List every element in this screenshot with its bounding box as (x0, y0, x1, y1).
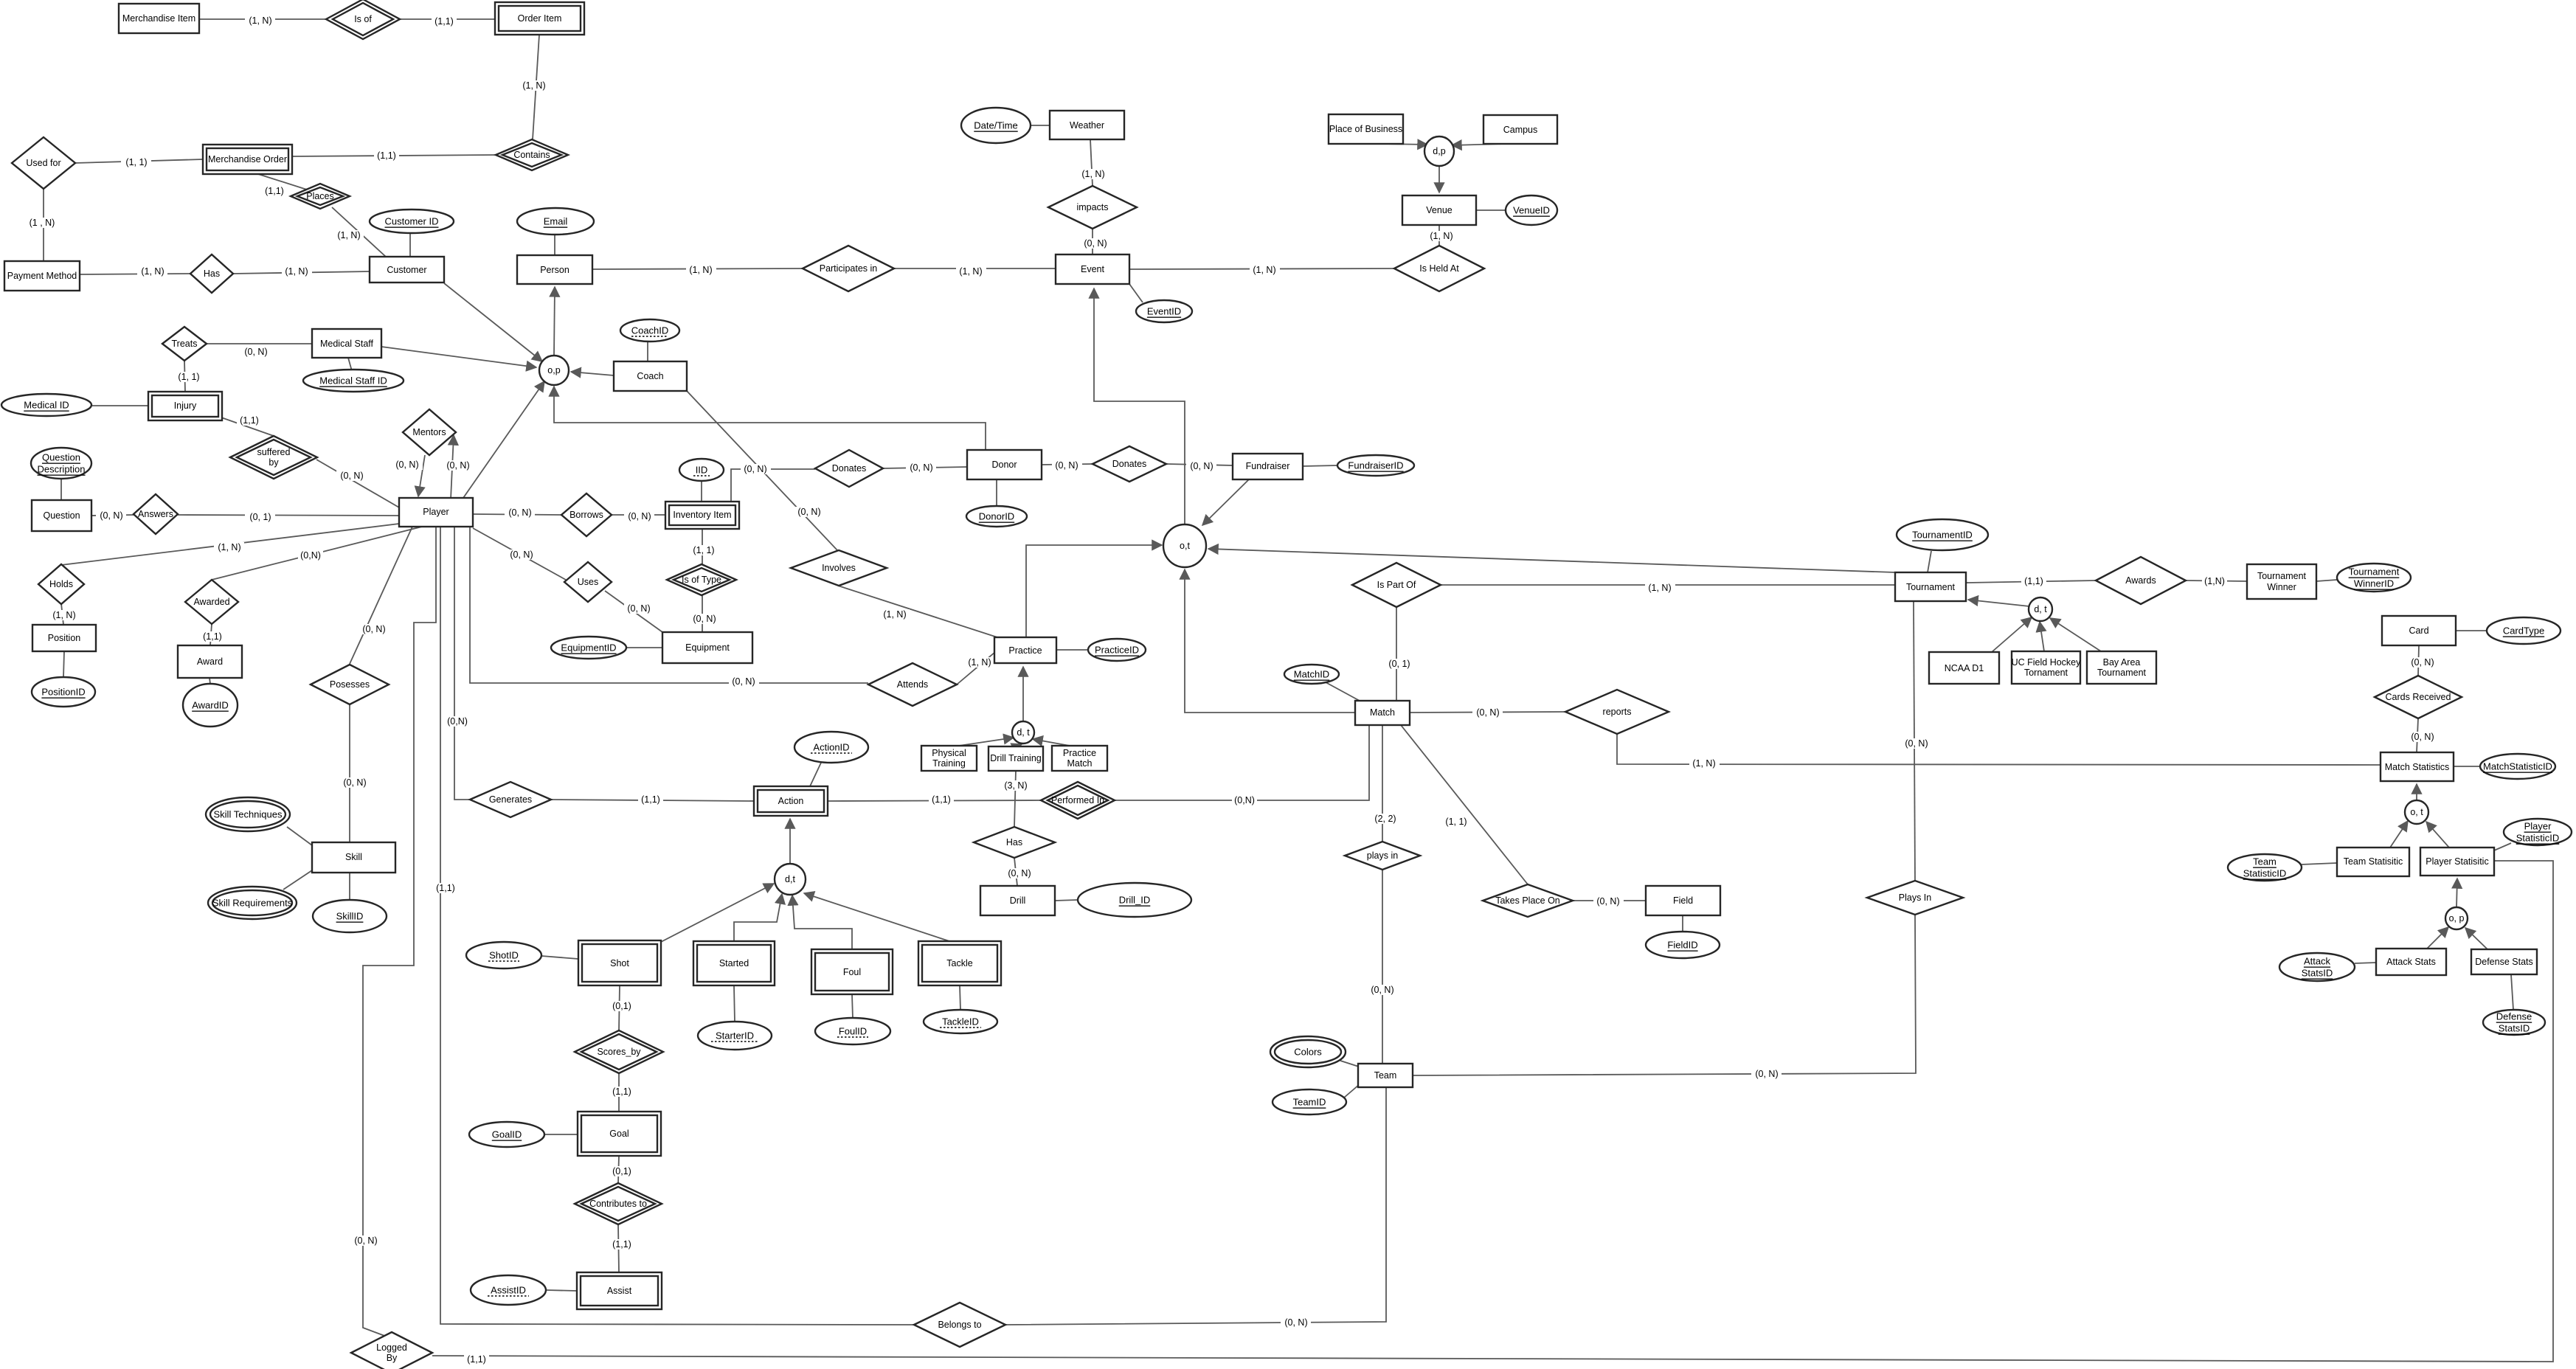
wire Fundraiser - FundraiserID (1303, 465, 1337, 466)
relationship Uses (564, 562, 612, 602)
svg-text:TournamentID: TournamentID (1912, 530, 1973, 541)
svg-text:Field: Field (1673, 895, 1693, 906)
svg-text:AssistID: AssistID (491, 1285, 526, 1296)
wire Merchandise Order - Places (258, 174, 307, 196)
entity Goal (578, 1112, 661, 1156)
svg-text:Tackle: Tackle (946, 958, 972, 968)
entity Order Item (495, 2, 584, 35)
wire Contributes to - Assist (609, 1224, 634, 1272)
svg-text:(1, N): (1, N) (218, 542, 240, 552)
svg-text:StarterID: StarterID (716, 1030, 754, 1042)
svg-text:Holds: Holds (49, 579, 73, 589)
entity Shot (578, 940, 661, 985)
svg-text:(0, N): (0, N) (1476, 707, 1499, 718)
svg-text:(0, N): (0, N) (744, 464, 766, 474)
attribute DonorID (966, 506, 1027, 527)
svg-text:(1,1): (1,1) (612, 1239, 631, 1250)
svg-text:(0, N): (0, N) (446, 460, 469, 471)
svg-text:(1,1): (1,1) (641, 794, 660, 805)
svg-text:(1,1): (1,1) (377, 150, 396, 161)
svg-text:(0, 1): (0, 1) (249, 512, 271, 522)
svg-text:(0, N): (0, N) (1755, 1069, 1778, 1079)
svg-text:(0, N): (0, N) (1371, 985, 1393, 995)
svg-text:(0,N): (0,N) (447, 716, 468, 727)
entity Physical Training (921, 746, 977, 771)
svg-text:d, t: d, t (1017, 727, 1030, 738)
svg-text:Treats: Treats (172, 339, 198, 349)
svg-text:(1, N): (1, N) (52, 610, 75, 620)
svg-text:d,t: d,t (785, 874, 795, 884)
svg-text:Campus: Campus (1503, 125, 1538, 135)
relationship Contains (496, 139, 568, 170)
svg-text:(0,N): (0,N) (300, 550, 321, 561)
entity Field (1646, 886, 1720, 915)
wire Mentors - Player arrow (392, 455, 425, 496)
svg-text:Merchandise Order: Merchandise Order (208, 154, 287, 164)
svg-text:PositionID: PositionID (41, 687, 85, 698)
wire Awards - Tournament Winner (2186, 576, 2247, 586)
svg-text:(1,1): (1,1) (2024, 576, 2043, 586)
wire Has2 - Drill (1005, 858, 1035, 886)
wire Used for - Payment Method (24, 188, 60, 261)
wire TeamID - Team (1344, 1084, 1360, 1098)
entity Medical Staff (312, 329, 381, 358)
svg-text:Is of: Is of (354, 14, 372, 24)
wire o t2 - Match Statistics arrow (2416, 784, 2417, 800)
entity Assist (577, 1272, 662, 1309)
svg-text:Scores_by: Scores_by (597, 1047, 641, 1057)
entity Match (1355, 701, 1410, 725)
relationship Takes Place On (1483, 884, 1573, 917)
attribute Skill Requirements (208, 887, 297, 919)
svg-text:EventID: EventID (1147, 306, 1181, 317)
wire d p - Venue arrow (1438, 166, 1440, 193)
wire Player - Holds (61, 524, 399, 565)
wire Order Item - Contains (519, 35, 550, 139)
wire Tournament - Awards (1966, 576, 2096, 586)
svg-text:(0, N): (0, N) (797, 507, 820, 517)
svg-text:Order Item: Order Item (518, 13, 562, 24)
svg-text:Customer ID: Customer ID (385, 216, 439, 227)
attribute Question Description (31, 448, 91, 479)
wire Contains - Merchandise Order (292, 150, 496, 161)
relationship Logged By (351, 1332, 432, 1369)
wire Card - Cards Received (2408, 645, 2438, 676)
entity Drill (980, 886, 1055, 915)
relationship Used for (12, 137, 75, 189)
relationship Places (291, 184, 350, 209)
svg-text:(0, N): (0, N) (100, 510, 122, 521)
svg-text:Involves: Involves (822, 563, 856, 573)
wire StarterID - Started (734, 985, 735, 1022)
entity Merchandise Item (119, 4, 199, 33)
wire Answers - Player (178, 512, 399, 522)
svg-text:(0, N): (0, N) (362, 624, 385, 634)
svg-text:(0, N): (0, N) (2411, 657, 2434, 668)
svg-text:ShotID: ShotID (489, 950, 519, 961)
svg-text:o, p: o, p (2449, 913, 2465, 923)
svg-text:(1, 1): (1, 1) (178, 372, 199, 382)
wire Medical Staff - Medical Staff ID (348, 358, 352, 371)
svg-text:Colors: Colors (1294, 1047, 1322, 1058)
wire Borrows - Inventory Item (612, 511, 665, 521)
svg-text:Coach: Coach (637, 371, 663, 381)
relationship Has (190, 254, 233, 293)
entity Action (754, 786, 828, 816)
wire Tournament - Plays In (1902, 601, 1932, 881)
attribute Defense StatsID (2483, 1010, 2545, 1035)
relationship Awarded (185, 580, 238, 624)
wire reports - Match Statistics (1617, 734, 2381, 769)
wire Attack Stats - o p2 (2427, 927, 2448, 949)
attribute EventID (1136, 300, 1192, 322)
svg-text:Player Statisitic: Player Statisitic (2426, 856, 2488, 867)
svg-text:Cards Received: Cards Received (2386, 692, 2451, 702)
svg-text:Event: Event (1081, 264, 1104, 274)
attribute EquipmentID (551, 637, 626, 659)
relationship Cards Received (2375, 676, 2462, 718)
entity Player Statisitic (2420, 848, 2494, 876)
svg-text:Team: Team (2253, 856, 2276, 867)
svg-text:StatisticID: StatisticID (2516, 833, 2560, 844)
svg-text:d, t: d, t (2034, 604, 2047, 614)
svg-text:Medical ID: Medical ID (24, 400, 69, 411)
svg-text:(1, N): (1, N) (968, 657, 991, 668)
svg-text:Belongs to: Belongs to (938, 1320, 981, 1330)
svg-text:(0,1): (0,1) (612, 1001, 631, 1011)
entity Place of Business (1329, 114, 1403, 144)
svg-text:(1 , N): (1 , N) (30, 218, 55, 228)
entity Tournament Winner (2247, 564, 2316, 599)
svg-text:Winner: Winner (2267, 582, 2296, 592)
entity Inventory Item (665, 502, 739, 529)
attribute ActionID (794, 732, 868, 763)
svg-text:Customer: Customer (387, 265, 426, 275)
svg-text:Is Held At: Is Held At (1419, 263, 1459, 274)
wire Venue - VenueID (1476, 209, 1506, 211)
svg-text:impacts: impacts (1076, 202, 1108, 212)
entity Practice Match (1052, 746, 1107, 771)
svg-text:Question: Question (43, 510, 80, 521)
wire Defense Stats - Defense StatsID (2511, 974, 2513, 1010)
svg-text:Skill Techniques: Skill Techniques (214, 809, 283, 820)
relationship Participates in (803, 246, 894, 291)
svg-text:Performed In: Performed In (1051, 795, 1104, 805)
svg-text:(1, N): (1, N) (1430, 231, 1453, 241)
svg-text:UC Field Hockey: UC Field Hockey (2012, 657, 2082, 668)
wire Bay Area - d t3 (2050, 618, 2101, 651)
wire Customer - o p (444, 283, 542, 361)
wire Inventory Item - Donates elbow (731, 464, 815, 502)
svg-text:(1, N): (1, N) (959, 266, 982, 277)
svg-text:MatchStatisticID: MatchStatisticID (2483, 761, 2552, 772)
wire Generates - Player (445, 527, 470, 800)
svg-text:PracticeID: PracticeID (1095, 645, 1139, 656)
svg-text:Date/Time: Date/Time (974, 120, 1017, 131)
svg-text:Drill Training: Drill Training (990, 753, 1042, 763)
wire Drill Training - d t (1017, 744, 1022, 746)
svg-text:Plays In: Plays In (1899, 893, 1932, 903)
specialization node d t practice (1012, 721, 1034, 744)
entity Bay Area Tournament (2087, 651, 2156, 684)
svg-text:Donor: Donor (991, 460, 1017, 470)
attribute Team StatisticID (2228, 854, 2302, 881)
svg-text:EquipmentID: EquipmentID (561, 642, 616, 654)
svg-text:Awarded: Awarded (193, 597, 229, 607)
wire Field - FieldID (1682, 915, 1683, 932)
svg-text:Description: Description (37, 464, 85, 475)
relationship Involves (791, 550, 887, 586)
svg-text:by: by (269, 457, 279, 468)
svg-text:Card: Card (2409, 625, 2428, 636)
svg-text:(0, N): (0, N) (1596, 896, 1619, 907)
wire Participates in - Event (894, 266, 1056, 277)
wire Treats - Medical Staff (207, 344, 312, 357)
wire Skill - Skill Requirements (283, 870, 312, 890)
svg-text:(1,1): (1,1) (240, 415, 259, 426)
svg-text:Merchandise Item: Merchandise Item (122, 13, 195, 24)
entity Person (517, 255, 592, 284)
wire Medical Staff - o p (381, 347, 536, 367)
svg-text:(0,1): (0,1) (612, 1166, 631, 1176)
svg-text:Bay Area: Bay Area (2103, 657, 2141, 668)
relationship suffered by (230, 436, 317, 479)
wire AssistID - Assist (546, 1290, 577, 1291)
wire Has - Customer (233, 266, 370, 277)
svg-text:FieldID: FieldID (1667, 940, 1697, 951)
svg-text:Tornament: Tornament (2024, 668, 2068, 678)
wire Event - impacts (1080, 229, 1110, 254)
svg-text:(0, N): (0, N) (244, 347, 267, 357)
svg-text:TeamID: TeamID (1293, 1097, 1326, 1108)
relationship Posesses (311, 665, 389, 704)
wire Match Statistics - MatchStatisticID (2454, 766, 2480, 767)
svg-text:Has: Has (1006, 837, 1022, 848)
wire Shot - d t2 (661, 884, 774, 942)
svg-text:Equipment: Equipment (685, 642, 730, 653)
svg-text:Place of Business: Place of Business (1329, 124, 1402, 134)
wire d t2 - Action arrow (789, 819, 791, 864)
specialization node o t (1163, 524, 1206, 567)
svg-text:Contains: Contains (513, 150, 550, 160)
wire Skill - SkillID (349, 873, 350, 900)
wire Logged By - Player Statisitic (432, 861, 2553, 1365)
wire d t3 - Tournament arrow (1968, 600, 2029, 606)
entity Skill (312, 842, 395, 873)
attribute TournamentID (1897, 519, 1988, 550)
svg-text:Started: Started (719, 958, 749, 968)
svg-text:DonorID: DonorID (979, 511, 1014, 522)
svg-text:Drill_ID: Drill_ID (1119, 895, 1151, 906)
svg-text:Participates in: Participates in (820, 263, 878, 274)
svg-text:(0, N): (0, N) (395, 460, 418, 470)
svg-text:(1, N): (1, N) (1648, 583, 1671, 593)
wire Player - Belongs to (433, 527, 914, 1325)
wire Posesses - Skill (339, 704, 370, 842)
wire Is of Type - Equipment (689, 595, 719, 632)
attribute Attack StatsID (2279, 953, 2355, 981)
wire Merchandise Item - Is of (199, 15, 326, 26)
svg-text:(2, 2): (2, 2) (1374, 814, 1396, 824)
wire Player - Mentors arrow (443, 435, 473, 499)
svg-text:Used for: Used for (26, 158, 60, 168)
relationship Belongs to (914, 1303, 1005, 1347)
svg-text:Injury: Injury (174, 401, 197, 411)
wire Belongs to - Team (1005, 1087, 1386, 1328)
svg-text:Position: Position (48, 633, 81, 643)
attribute TournamentWinnerID (2337, 564, 2411, 592)
svg-text:StatisticID: StatisticID (2243, 868, 2287, 879)
relationship Answers (134, 494, 178, 534)
wire Match - Is Part Of (1384, 608, 1414, 701)
svg-text:(0, N): (0, N) (1190, 461, 1213, 471)
attribute FieldID (1646, 932, 1720, 958)
wire Match - Takes Place On (1401, 725, 1528, 884)
svg-text:(1, 1): (1, 1) (693, 545, 714, 555)
wire Person - Participates in (592, 265, 803, 275)
wire Match - o t (1185, 569, 1355, 713)
svg-text:(1, N): (1, N) (285, 266, 308, 277)
svg-text:Logged: Logged (376, 1342, 407, 1353)
wire Player - o p (463, 381, 544, 498)
svg-text:(1, N): (1, N) (1253, 265, 1275, 275)
svg-text:(0, N): (0, N) (510, 550, 533, 560)
entity Match Statistics (2381, 752, 2454, 781)
relationship reports (1565, 690, 1669, 734)
svg-text:MatchID: MatchID (1294, 669, 1329, 680)
wire Coach - CoachID (647, 341, 648, 361)
entity Donor (967, 450, 1042, 479)
wire d t - Practice arrow (1022, 667, 1024, 721)
wire Action - Performed In (828, 794, 1041, 805)
svg-text:Email: Email (544, 216, 568, 227)
attribute AwardID (183, 684, 238, 727)
svg-text:(1,1): (1,1) (265, 186, 284, 196)
wire Player - Attends (470, 527, 868, 687)
wire Drill Training - Has2 (1000, 771, 1031, 827)
svg-text:GoalID: GoalID (492, 1129, 522, 1140)
specialization node o p stats (2445, 907, 2468, 929)
wire suffered by - Player (316, 460, 399, 507)
attribute CoachID (620, 319, 679, 342)
wire Practice - o t (1026, 545, 1162, 637)
relationship Attends (868, 663, 957, 706)
attribute StarterID (698, 1022, 772, 1050)
entity Defense Stats (2471, 949, 2537, 974)
svg-text:(1,N): (1,N) (2204, 576, 2225, 586)
svg-text:(1, 1): (1, 1) (125, 157, 147, 167)
wire Event - Is Held At (1129, 265, 1394, 275)
wire Treats - Injury (174, 361, 204, 392)
svg-text:Attack Stats: Attack Stats (2386, 957, 2436, 967)
svg-text:(1,1): (1,1) (434, 16, 454, 27)
wire Merchandise Order - Used for (75, 157, 203, 167)
svg-text:reports: reports (1603, 707, 1632, 717)
svg-text:Person: Person (540, 265, 569, 275)
attribute ShotID (466, 942, 541, 968)
wire Card - CardType (2456, 630, 2487, 631)
wire Scores by - Goal (609, 1073, 634, 1112)
wire Shot - Scores by (609, 985, 634, 1030)
wire Practice - PracticeID (1056, 649, 1089, 651)
wire Player - Uses (473, 528, 566, 580)
specialization node o p (539, 356, 569, 385)
svg-text:Foul: Foul (843, 967, 861, 977)
wire Player Statisitic - o t2 (2426, 822, 2449, 848)
wire Fundraiser - o t (1202, 479, 1249, 525)
svg-text:WinnerID: WinnerID (2354, 578, 2394, 589)
wire UC Field Hockey - d t3 (2040, 622, 2044, 651)
wire TackleID - Tackle (960, 985, 960, 1010)
svg-text:AwardID: AwardID (192, 700, 229, 711)
entity Question (32, 500, 91, 531)
wire Question - Question Description (60, 478, 62, 500)
wire Tournament Winner - TournamentWinnerID (2316, 580, 2337, 581)
wire Donor - DonorID (996, 479, 997, 507)
attribute MatchStatisticID (2480, 754, 2555, 779)
entity Drill Training (988, 746, 1043, 771)
wire Tackle - d t2 (804, 893, 949, 941)
entity Award (178, 645, 242, 678)
wire Question - Answers (91, 510, 134, 521)
wire Places - Customer (332, 207, 386, 257)
wire Tournament - o t (1208, 549, 1895, 572)
attribute GoalID (469, 1122, 544, 1147)
relationship Mentors (403, 409, 456, 455)
wire Player - Borrows (473, 507, 561, 518)
attribute IID (679, 459, 724, 481)
svg-text:(0, N): (0, N) (354, 1235, 377, 1246)
wire Tournament - TournamentID (1928, 551, 1931, 572)
attribute SkillID (313, 900, 387, 932)
entity Venue (1402, 195, 1476, 225)
wire Match - plays in (1371, 725, 1401, 842)
wire Donor - Donates2 (1042, 460, 1093, 471)
relationship Treats (162, 327, 207, 361)
svg-text:Awards: Awards (2125, 575, 2156, 586)
svg-text:Medical Staff ID: Medical Staff ID (319, 375, 387, 387)
wire Plays In - Team (1413, 915, 1916, 1079)
svg-text:Practice: Practice (1008, 645, 1042, 656)
svg-text:(1, N): (1, N) (337, 230, 360, 240)
attribute Skill Techniques (206, 797, 290, 831)
entity Weather (1050, 111, 1124, 139)
wire plays in - Team (1368, 870, 1398, 1064)
entity Coach (614, 361, 687, 391)
attribute AssistID (471, 1275, 546, 1305)
svg-text:(1, N): (1, N) (883, 609, 906, 620)
svg-text:(0, N): (0, N) (627, 603, 650, 614)
wire Inventory Item - IID (701, 480, 702, 502)
svg-text:Medical Staff: Medical Staff (320, 339, 374, 349)
entity Campus (1483, 115, 1557, 144)
entity NCAA D1 (1929, 652, 1999, 684)
attribute PositionID (32, 677, 95, 707)
svg-text:(1, N): (1, N) (249, 15, 271, 26)
wire Is Part Of - Tournament (1441, 583, 1895, 593)
wire Drill - Drill ID (1055, 900, 1078, 901)
entity Team (1358, 1064, 1413, 1087)
wire Takes Place On - Field (1573, 896, 1646, 907)
attribute TeamID (1273, 1089, 1346, 1115)
svg-text:FoulID: FoulID (839, 1026, 867, 1037)
entity Merchandise Order (203, 145, 292, 174)
svg-text:(1,1): (1,1) (612, 1086, 631, 1097)
entity Tackle (918, 941, 1001, 985)
relationship plays in (1345, 842, 1420, 870)
wire o p - Person arrow (554, 287, 555, 356)
svg-text:Tournament: Tournament (2349, 566, 2400, 578)
